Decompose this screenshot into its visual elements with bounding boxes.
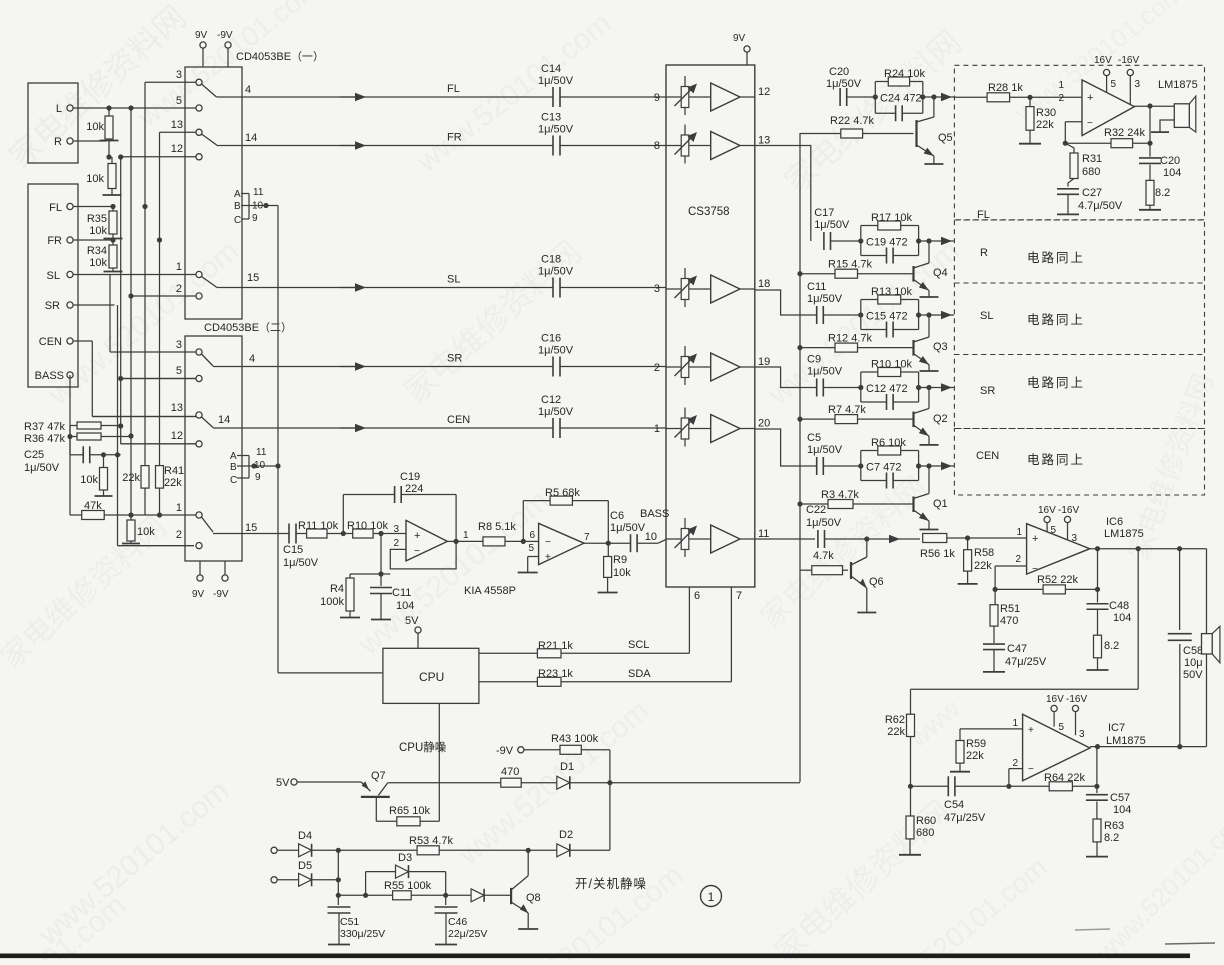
svg-text:IC6: IC6 [1106, 516, 1123, 528]
svg-text:R37 47k: R37 47k [24, 421, 65, 433]
chip1 pin 2 [176, 283, 202, 299]
svg-text:12: 12 [171, 143, 183, 155]
speaker (bridge) [1202, 549, 1220, 747]
capacitor C13 1u/50V [538, 112, 666, 156]
svg-text:电路同上: 电路同上 [1027, 452, 1085, 467]
svg-text:22k: 22k [974, 560, 992, 572]
svg-text:13: 13 [171, 402, 183, 414]
svg-text:R59: R59 [966, 738, 986, 750]
svg-text:1: 1 [1016, 527, 1022, 538]
svg-text:D5: D5 [298, 860, 312, 872]
svg-text:15: 15 [247, 272, 259, 284]
resistor R12 4.7k (Q3 base) [797, 333, 913, 353]
svg-text:C20: C20 [1160, 155, 1180, 167]
svg-text:9V: 9V [195, 30, 208, 41]
capacitor C48 104 [1087, 549, 1132, 624]
svg-text:R8 5.1k: R8 5.1k [478, 521, 516, 533]
svg-text:CEN: CEN [976, 450, 999, 462]
svg-text:C12: C12 [541, 394, 561, 406]
CS3758 pin 8 [654, 140, 660, 152]
-9V terminal (R43) [496, 745, 560, 757]
svg-text:C11: C11 [807, 281, 826, 293]
svg-text:8.2: 8.2 [1155, 187, 1170, 199]
svg-text:10k: 10k [89, 225, 107, 237]
svg-text:R12 4.7k: R12 4.7k [828, 333, 873, 345]
resistor R31 680 [1065, 143, 1102, 178]
-9V terminal (chip2) [213, 561, 229, 600]
wire D1 node to D2 [609, 783, 611, 851]
dashed box FL amplifier [954, 65, 1204, 220]
svg-text:R65 10k: R65 10k [389, 805, 430, 817]
svg-text:14: 14 [245, 132, 257, 144]
chip1 pin 1 [176, 261, 202, 278]
svg-text:SL: SL [47, 270, 60, 282]
CS3758 channel buffer (out 20) [711, 415, 771, 443]
-9V terminal (chip1) [217, 30, 233, 67]
svg-text:1: 1 [1058, 80, 1064, 91]
svg-text:10k: 10k [613, 567, 631, 579]
resistor R15 4.7k (Q4 base) [797, 259, 913, 279]
op-amp U2A KIA4558P [393, 520, 447, 561]
svg-text:Q4: Q4 [933, 267, 948, 279]
resistor R52 22k [995, 574, 1100, 594]
diode D2 [530, 829, 610, 857]
svg-text:13: 13 [758, 135, 770, 147]
resistor R62 22k [885, 689, 915, 789]
svg-text:C18: C18 [541, 254, 561, 266]
resistor R36 47k [24, 433, 131, 445]
svg-text:C12 472: C12 472 [866, 383, 908, 395]
chip1 pin 5 [176, 95, 202, 111]
CS3758 pin 1 [654, 423, 660, 435]
chip1 switch pin3-4 [202, 84, 252, 97]
op-amp U2B KIA4558P [523, 523, 584, 564]
svg-text:1: 1 [176, 261, 182, 273]
svg-text:22μ/25V: 22μ/25V [448, 928, 487, 940]
svg-text:电路同上: 电路同上 [1027, 250, 1085, 265]
resistor R3 4.7k (Q1 base) [797, 489, 913, 509]
svg-text:11: 11 [256, 447, 267, 458]
9V terminal (chip2) [192, 561, 205, 600]
svg-text:22k: 22k [122, 472, 140, 484]
network SR: capacitor C9 + R10/C12 + arrow [755, 354, 954, 411]
svg-text:R6 10k: R6 10k [871, 437, 906, 449]
wire bus 12-line to chip2 pin5/pin12 [118, 154, 196, 444]
svg-text:C47: C47 [1007, 643, 1027, 655]
svg-text:2: 2 [654, 362, 660, 374]
wire bus CEN to chip2 pin13 [92, 341, 196, 417]
svg-text:16V: 16V [1038, 505, 1056, 516]
CS3758 channel attenuator (out 11) [666, 518, 711, 557]
svg-text:SR: SR [980, 385, 995, 397]
svg-text:9V: 9V [192, 589, 205, 600]
svg-text:1μ/50V: 1μ/50V [807, 444, 843, 456]
resistor 10k (L to R line) [86, 105, 118, 140]
svg-text:C57: C57 [1110, 792, 1130, 804]
svg-text:C15 472: C15 472 [866, 311, 908, 323]
terminal SR [45, 300, 115, 312]
svg-text:+: + [414, 530, 420, 542]
svg-text:3: 3 [393, 524, 399, 535]
svg-text:D4: D4 [298, 830, 312, 842]
-16V terminal (IC6) [1058, 505, 1079, 540]
chip2 out4 wire SR row [213, 366, 361, 368]
wire U2B output [584, 532, 611, 546]
svg-text:R51: R51 [1000, 603, 1020, 615]
svg-text:18: 18 [758, 278, 770, 290]
svg-text:-9V: -9V [217, 30, 233, 41]
svg-text:47μ/25V: 47μ/25V [1005, 656, 1047, 668]
resistor 4.7k (Q6 base) [800, 550, 848, 575]
capacitor C51 330u/25V [328, 895, 386, 944]
diode D5 [298, 860, 341, 886]
terminal (mute in 2) [271, 877, 299, 883]
svg-text:R32 24k: R32 24k [1104, 127, 1145, 139]
svg-text:B: B [230, 462, 237, 473]
svg-text:10: 10 [645, 531, 657, 543]
svg-text:C22: C22 [806, 504, 826, 516]
svg-text:1μ/50V: 1μ/50V [538, 75, 574, 87]
resistor R34 10k [87, 237, 123, 271]
op-amp U2A feedback loop [390, 530, 469, 569]
svg-text:+: + [545, 552, 551, 563]
wire CPU mute line [399, 703, 447, 821]
svg-text:680: 680 [916, 827, 934, 839]
svg-text:R10 10k: R10 10k [871, 359, 912, 371]
svg-text:R17 10k: R17 10k [871, 212, 912, 224]
CS3758 channel attenuator (out 13) [666, 125, 711, 164]
svg-text:FL: FL [977, 209, 990, 221]
IC CPU box [383, 648, 479, 703]
svg-text:R34: R34 [87, 245, 107, 257]
wire chip2 pin2 row [118, 545, 195, 547]
wire BASS down to 47k [69, 375, 71, 515]
svg-text:10k: 10k [86, 173, 104, 185]
svg-text:16V: 16V [1094, 55, 1112, 66]
svg-text:13: 13 [171, 119, 183, 131]
svg-text:CPU: CPU [419, 670, 444, 684]
svg-text:C13: C13 [541, 112, 561, 124]
wire IC6 output [1090, 546, 1207, 551]
terminal CEN [39, 336, 93, 348]
svg-text:5: 5 [176, 365, 182, 377]
resistor 10k (pin1 chip2) [122, 515, 155, 544]
resistor R5 68k (feedback) [523, 487, 608, 543]
capacitor C11 104 [370, 574, 414, 620]
diode D1 [557, 761, 800, 789]
svg-text:3: 3 [1135, 79, 1141, 90]
CS3758 pin 10 label [640, 508, 669, 543]
svg-text:470: 470 [1000, 615, 1018, 627]
svg-text:11: 11 [253, 187, 264, 198]
capacitor C46 22u/25V [435, 895, 488, 944]
CS3758 channel buffer (out 12) [711, 83, 771, 111]
resistor R64 22k [1009, 772, 1100, 791]
svg-text:SL: SL [980, 310, 993, 322]
svg-text:1μ/50V: 1μ/50V [538, 406, 574, 418]
svg-text:C: C [230, 475, 237, 486]
svg-text:R15 4.7k: R15 4.7k [828, 259, 873, 271]
svg-text:CPU静噪: CPU静噪 [399, 740, 447, 754]
wire ABC bus to CPU [278, 206, 383, 673]
svg-text:1μ/50V: 1μ/50V [538, 124, 574, 136]
svg-text:Q5: Q5 [938, 132, 953, 144]
op-amp FL LM1875 [1058, 79, 1140, 136]
svg-text:3: 3 [1079, 729, 1085, 740]
svg-text:104: 104 [1113, 612, 1131, 624]
5V terminal (mute) [276, 777, 361, 789]
-16V terminal (FL amp) [1118, 55, 1139, 105]
svg-text:FR: FR [447, 132, 462, 144]
net SDA [628, 587, 731, 682]
svg-text:4.7μ/50V: 4.7μ/50V [1078, 200, 1123, 212]
svg-text:6: 6 [694, 590, 700, 602]
svg-text:1μ/50V: 1μ/50V [807, 366, 843, 378]
svg-text:R13 10k: R13 10k [871, 286, 912, 298]
svg-text:R43 100k: R43 100k [551, 733, 599, 745]
resistor 10k (12-line to gnd) [86, 157, 121, 195]
chip2 pin 3 [176, 339, 202, 355]
svg-text:R62: R62 [885, 714, 905, 726]
svg-text:3: 3 [176, 69, 182, 81]
resistor 22k [122, 466, 149, 489]
svg-text:CS3758: CS3758 [688, 206, 730, 218]
resistor R4 100k [320, 534, 383, 618]
chip2 ABC select pins [230, 447, 281, 486]
chip2 switch pin13-14 [202, 414, 231, 428]
svg-text:Q8: Q8 [526, 892, 541, 904]
svg-text:R35: R35 [87, 213, 107, 225]
transistor Q3 [914, 315, 948, 371]
resistor R63 8.2 [1086, 802, 1124, 857]
svg-text:C6: C6 [610, 510, 624, 522]
svg-text:5: 5 [528, 543, 534, 554]
wire SL row with arrow [340, 274, 553, 292]
svg-text:22k: 22k [164, 477, 182, 489]
svg-text:+: + [1032, 533, 1038, 545]
wire FL minus input [1063, 122, 1082, 146]
svg-text:8.2: 8.2 [1104, 640, 1119, 652]
chip1 switch pin13-14 [202, 132, 258, 146]
svg-text:电路同上: 电路同上 [1027, 375, 1085, 390]
svg-text:Q6: Q6 [869, 576, 884, 588]
op-amp U2B plus input gnd [518, 557, 539, 573]
svg-text:3: 3 [654, 283, 660, 295]
svg-text:R31: R31 [1082, 153, 1102, 165]
network CEN: capacitor C5 + R6/C7 + arrow [755, 429, 954, 489]
svg-text:D1: D1 [560, 761, 574, 773]
dashed box R (same circuit) [954, 220, 1204, 283]
svg-text:SCL: SCL [628, 639, 649, 651]
svg-text:LM1875: LM1875 [1158, 79, 1198, 91]
terminal BASS [35, 370, 73, 382]
svg-text:−: − [414, 546, 420, 557]
IC7 labels [1106, 722, 1146, 747]
chip2 pin 1 [176, 502, 202, 518]
svg-text:SR: SR [447, 353, 462, 365]
diode (Q8 base) [446, 889, 505, 902]
network FL: capacitor C20 + R24/C24 + arrow [826, 66, 954, 121]
CS3758 pin 2 [654, 362, 660, 374]
svg-text:C9: C9 [807, 354, 821, 366]
svg-text:R4: R4 [330, 583, 344, 595]
svg-text:1: 1 [463, 530, 469, 541]
resistor R32 24k [1065, 127, 1152, 148]
transistor Q6 [851, 536, 884, 612]
svg-text:BASS: BASS [35, 370, 64, 382]
svg-text:1μ/50V: 1μ/50V [814, 219, 850, 231]
chip2 pin 5 [121, 365, 202, 382]
svg-text:C27: C27 [1082, 187, 1102, 199]
svg-text:C5: C5 [807, 432, 821, 444]
wire R line to pin12 bus [106, 141, 111, 160]
svg-text:2: 2 [1015, 554, 1021, 565]
svg-text:1: 1 [1012, 718, 1018, 729]
svg-text:C7 472: C7 472 [866, 462, 901, 474]
network R: capacitor C17 + R17/C19 + arrow [755, 146, 954, 264]
dashed box SL (same circuit) [954, 283, 1204, 355]
svg-text:9V: 9V [733, 33, 746, 44]
transistor Q8 [505, 850, 541, 929]
wire bus FL line (pin3 chip1 / 22k / pin1 chip2) [142, 82, 199, 515]
resistor R65 10k [376, 797, 439, 826]
svg-text:4.7k: 4.7k [813, 550, 834, 562]
CS3758 channel attenuator (out 18) [666, 268, 711, 307]
svg-text:R36 47k: R36 47k [24, 433, 65, 445]
svg-text:1: 1 [176, 502, 182, 514]
capacitor C27 4.7u/50V [1057, 179, 1123, 215]
page bottom scan bar [0, 929, 1215, 958]
svg-text:104: 104 [1113, 804, 1131, 816]
svg-text:1μ/50V: 1μ/50V [807, 293, 843, 305]
chip2 switch pin3-4 [202, 353, 256, 366]
dashed box CEN (same circuit) [954, 429, 1204, 496]
svg-text:6: 6 [529, 530, 535, 541]
svg-text:Q3: Q3 [933, 341, 948, 353]
svg-text:20: 20 [758, 418, 770, 430]
svg-text:R63: R63 [1104, 820, 1124, 832]
svg-text:1μ/50V: 1μ/50V [826, 78, 862, 90]
svg-text:−: − [1028, 764, 1034, 775]
capacitor C16 1u/50V [538, 333, 666, 377]
resistor R55 100k [338, 880, 448, 900]
wire bus FR line (pin13 chip1 / R41) [157, 132, 199, 517]
svg-text:12: 12 [171, 430, 183, 442]
svg-text:R24 10k: R24 10k [884, 68, 925, 80]
capacitor C47 47u/25V [983, 626, 1047, 672]
svg-text:5: 5 [1059, 722, 1065, 733]
svg-text:C: C [234, 215, 241, 226]
IC6 labels [1104, 516, 1144, 540]
svg-text:CD4053BE（二）: CD4053BE（二） [204, 321, 292, 334]
wire IC7 output [1090, 744, 1207, 786]
svg-text:680: 680 [1082, 166, 1100, 178]
svg-text:FL: FL [447, 83, 460, 95]
capacitor C6 1u/50V [608, 510, 666, 552]
svg-text:5: 5 [1051, 525, 1057, 536]
capacitor C19 224 (feedback) [343, 471, 456, 541]
svg-text:开/关机静噪: 开/关机静噪 [575, 877, 647, 891]
svg-text:1μ/50V: 1μ/50V [283, 557, 319, 569]
svg-text:11: 11 [758, 528, 769, 540]
svg-text:FR: FR [47, 235, 62, 247]
svg-text:10μ: 10μ [1184, 657, 1203, 669]
svg-text:-16V: -16V [1118, 55, 1139, 66]
resistor R51 470 [990, 589, 1020, 627]
svg-text:1: 1 [654, 423, 660, 435]
chip2 out14 wire CEN row [213, 427, 360, 429]
capacitor C58 10u/50V [1168, 549, 1203, 747]
resistor 47k (BASS) [70, 500, 196, 520]
svg-text:C16: C16 [541, 333, 561, 345]
svg-text:1: 1 [708, 890, 715, 904]
chip2 pin 2 [176, 529, 202, 549]
resistor 8.2 (FL zobel) [1139, 165, 1170, 210]
svg-text:10k: 10k [137, 526, 155, 538]
wire IC6 out to IC7 input [911, 549, 1139, 690]
IC label KIA 4558P [464, 585, 516, 597]
svg-text:KIA 4558P: KIA 4558P [464, 585, 516, 597]
svg-text:LM1875: LM1875 [1104, 528, 1144, 540]
resistor R9 10k [598, 543, 632, 592]
9V terminal (CS3758) [733, 33, 750, 65]
resistor R30 22k [1019, 97, 1056, 143]
svg-text:1μ/50V: 1μ/50V [806, 517, 842, 529]
svg-text:10k: 10k [80, 474, 98, 486]
transistor Q7 [361, 770, 501, 797]
CS3758 channel attenuator (out 19) [666, 346, 711, 385]
chip2 pin 13 [92, 402, 202, 418]
terminal SL [47, 270, 196, 282]
svg-text:FL: FL [49, 202, 62, 214]
resistor R59 22k [950, 729, 986, 772]
svg-text:CEN: CEN [39, 336, 62, 348]
5V terminal (CPU) [405, 615, 421, 648]
svg-text:10k: 10k [86, 121, 104, 133]
diode D4 [298, 830, 341, 857]
CS3758 pin 3 [654, 283, 660, 295]
svg-text:1μ/50V: 1μ/50V [24, 462, 60, 474]
svg-text:D2: D2 [559, 829, 573, 841]
chip1 pin 13 [171, 119, 202, 135]
wire IC6 minus input [993, 566, 1027, 592]
svg-text:7: 7 [584, 532, 590, 543]
wire FR row with arrow [340, 132, 553, 150]
svg-text:2: 2 [176, 283, 182, 295]
svg-text:12: 12 [758, 86, 770, 98]
svg-text:1μ/50V: 1μ/50V [610, 522, 646, 534]
svg-text:A: A [230, 451, 237, 462]
wire bus SR to chip2 pin2 [115, 305, 194, 546]
svg-text:4: 4 [245, 84, 251, 96]
svg-text:7: 7 [736, 590, 742, 602]
chip1 out15 wire SL row [217, 287, 358, 289]
svg-text:R: R [980, 247, 988, 259]
CS3758 channel buffer (out 18) [711, 275, 771, 303]
svg-text:5: 5 [176, 95, 182, 107]
-16V terminal (IC7) [1066, 694, 1087, 735]
dashed box SR (same circuit) [954, 355, 1204, 429]
wire mute rail [799, 133, 801, 782]
16V terminal (FL amp) [1094, 55, 1112, 92]
svg-text:22k: 22k [1036, 119, 1054, 131]
speaker FL [1151, 96, 1196, 132]
svg-text:+: + [1028, 725, 1034, 736]
svg-text:A: A [234, 189, 241, 200]
capacitor C14 1u/50V [538, 63, 666, 107]
svg-text:LM1875: LM1875 [1106, 735, 1146, 747]
svg-text:C51: C51 [340, 916, 359, 928]
